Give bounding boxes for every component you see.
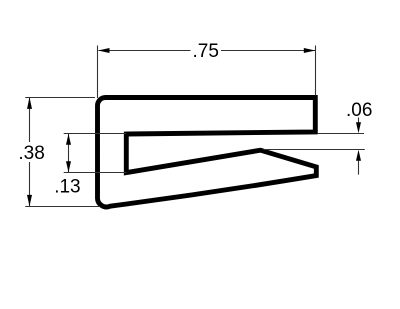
svg-text:.06: .06 bbox=[346, 100, 372, 121]
svg-text:.38: .38 bbox=[18, 143, 44, 164]
svg-text:.13: .13 bbox=[54, 176, 80, 197]
svg-text:.75: .75 bbox=[192, 41, 218, 62]
